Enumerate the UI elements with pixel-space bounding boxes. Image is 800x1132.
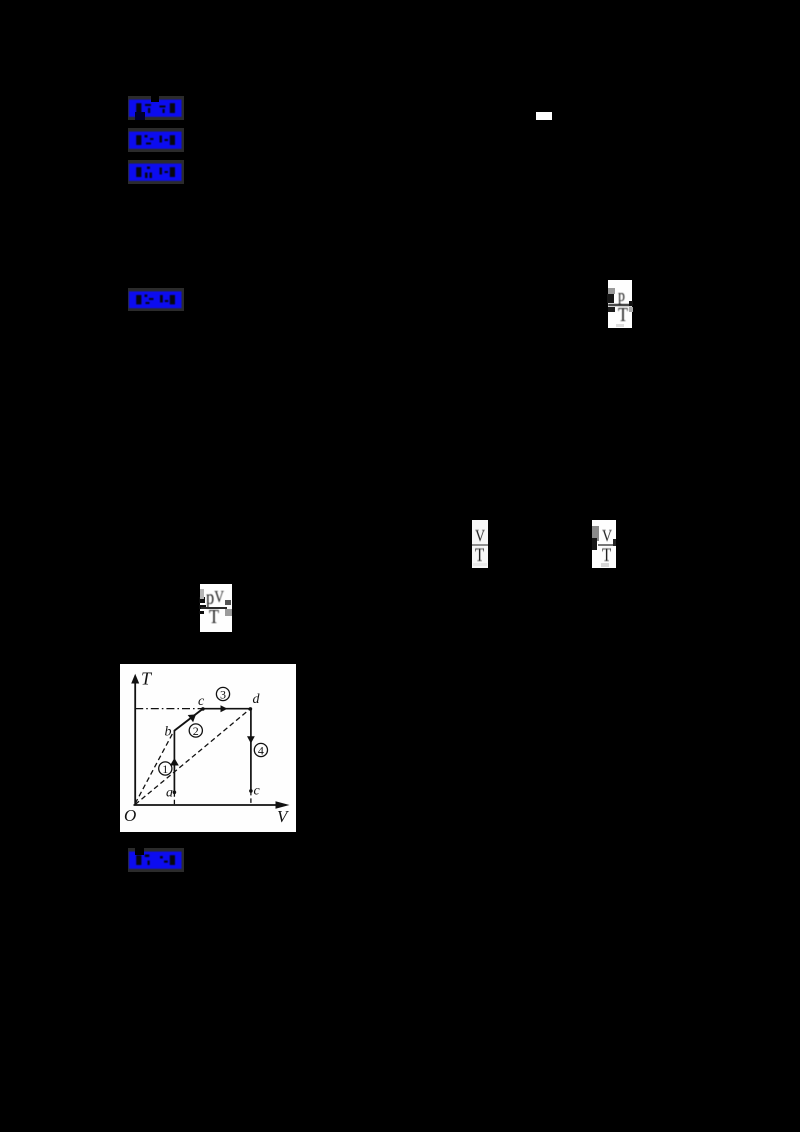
numerator pV: [206, 587, 231, 613]
circled 1: [159, 762, 172, 776]
graph image: V-T diagram: [120, 664, 296, 832]
svg-text:V: V: [277, 807, 290, 826]
gray artifact right lower: [225, 609, 232, 616]
svg-text:b: b: [165, 725, 172, 740]
gray artifact bottom of p/T image: [616, 324, 624, 328]
svg-text:O: O: [124, 806, 136, 825]
dashed line O to b: [135, 731, 174, 804]
gray artifact left of V: [592, 526, 599, 541]
V axis arrowhead: [276, 801, 290, 809]
dashed vertical below lower c: [250, 791, 252, 805]
fraction bar: [201, 607, 227, 609]
equation image pV/T: [200, 584, 232, 632]
marker 【答案】 highlighted blue label 1: [128, 96, 184, 120]
denominator T: [602, 546, 613, 564]
small white inline equation fragment top right: [536, 112, 552, 121]
equation image p/T: [608, 280, 632, 328]
arrow on b-c: [188, 714, 196, 722]
marker 【分析】 highlighted blue label 3: [128, 160, 184, 184]
process 2: b to c diagonal line: [174, 709, 203, 731]
fraction bar of p/T: [608, 304, 632, 306]
T axis arrowhead: [131, 674, 139, 684]
dash-dot line at T level of c,d: [135, 708, 250, 710]
denominator T: [475, 546, 486, 564]
svg-text:c: c: [198, 694, 205, 709]
dark artifact left edge below bar: [608, 307, 615, 312]
numerator V: [602, 526, 613, 542]
dark navy overlap on label 1 bottom-left: [135, 112, 145, 120]
dark artifact left edge: [592, 538, 597, 550]
arrow up on a-b: [170, 758, 179, 766]
gray artifact right edge below bar: [629, 307, 633, 312]
marker 【详解】 highlighted blue label 4: [128, 288, 184, 311]
arrow right on c-d: [221, 705, 228, 712]
light strip bottom: [473, 563, 487, 566]
svg-text:4: 4: [258, 744, 264, 758]
denominator T: [209, 606, 224, 628]
numerator V: [475, 526, 486, 542]
dark artifact left edge above bar: [607, 294, 614, 303]
svg-text:3: 3: [220, 688, 226, 702]
process 3: c to d horizontal line: [203, 708, 251, 710]
svg-text:c: c: [254, 784, 261, 799]
svg-text:2: 2: [193, 724, 199, 738]
svg-text:d: d: [253, 692, 261, 707]
T axis vertical with arrow: [134, 681, 287, 805]
point dot d: [249, 707, 253, 711]
marker 【解析】 highlighted blue label 2: [128, 128, 184, 152]
comma mark right: [613, 539, 616, 546]
denominator T: [618, 304, 633, 326]
circled 4: [254, 743, 267, 757]
point dot c top: [201, 707, 205, 711]
svg-text:T: T: [141, 669, 153, 689]
black overlap notch on label 1 top: [151, 95, 159, 102]
numerator p: [618, 286, 633, 310]
process 4: d to lower c vertical line: [250, 709, 252, 791]
svg-text:1: 1: [162, 762, 168, 776]
circled 3: [216, 687, 229, 701]
svg-text:a: a: [166, 786, 173, 801]
gray strip bottom: [601, 563, 609, 567]
point dot a: [173, 791, 177, 795]
process 1: a to b vertical line: [173, 731, 175, 792]
equation image V/T (first): [472, 520, 489, 568]
dashed vertical below a: [173, 792, 175, 805]
gray artifact top-left of p/T image: [608, 288, 615, 294]
equation image V/T (second): [592, 520, 616, 568]
gray artifact top-left: [200, 589, 204, 599]
dark tick right of bar: [629, 301, 633, 306]
dark equals-like dashes on left edge: [199, 597, 205, 603]
black overlap notch on label 5 top: [135, 847, 144, 855]
dashed line O to d: [135, 709, 250, 805]
fraction bar: [598, 544, 614, 546]
dark artifact right of bar: [225, 600, 231, 605]
marker 【点睛】 highlighted blue label 5: [128, 848, 184, 872]
arrow down on d-c: [247, 736, 255, 743]
fraction bar gray: [472, 544, 488, 546]
point dot lower c: [249, 789, 253, 793]
circled 2: [189, 724, 202, 738]
